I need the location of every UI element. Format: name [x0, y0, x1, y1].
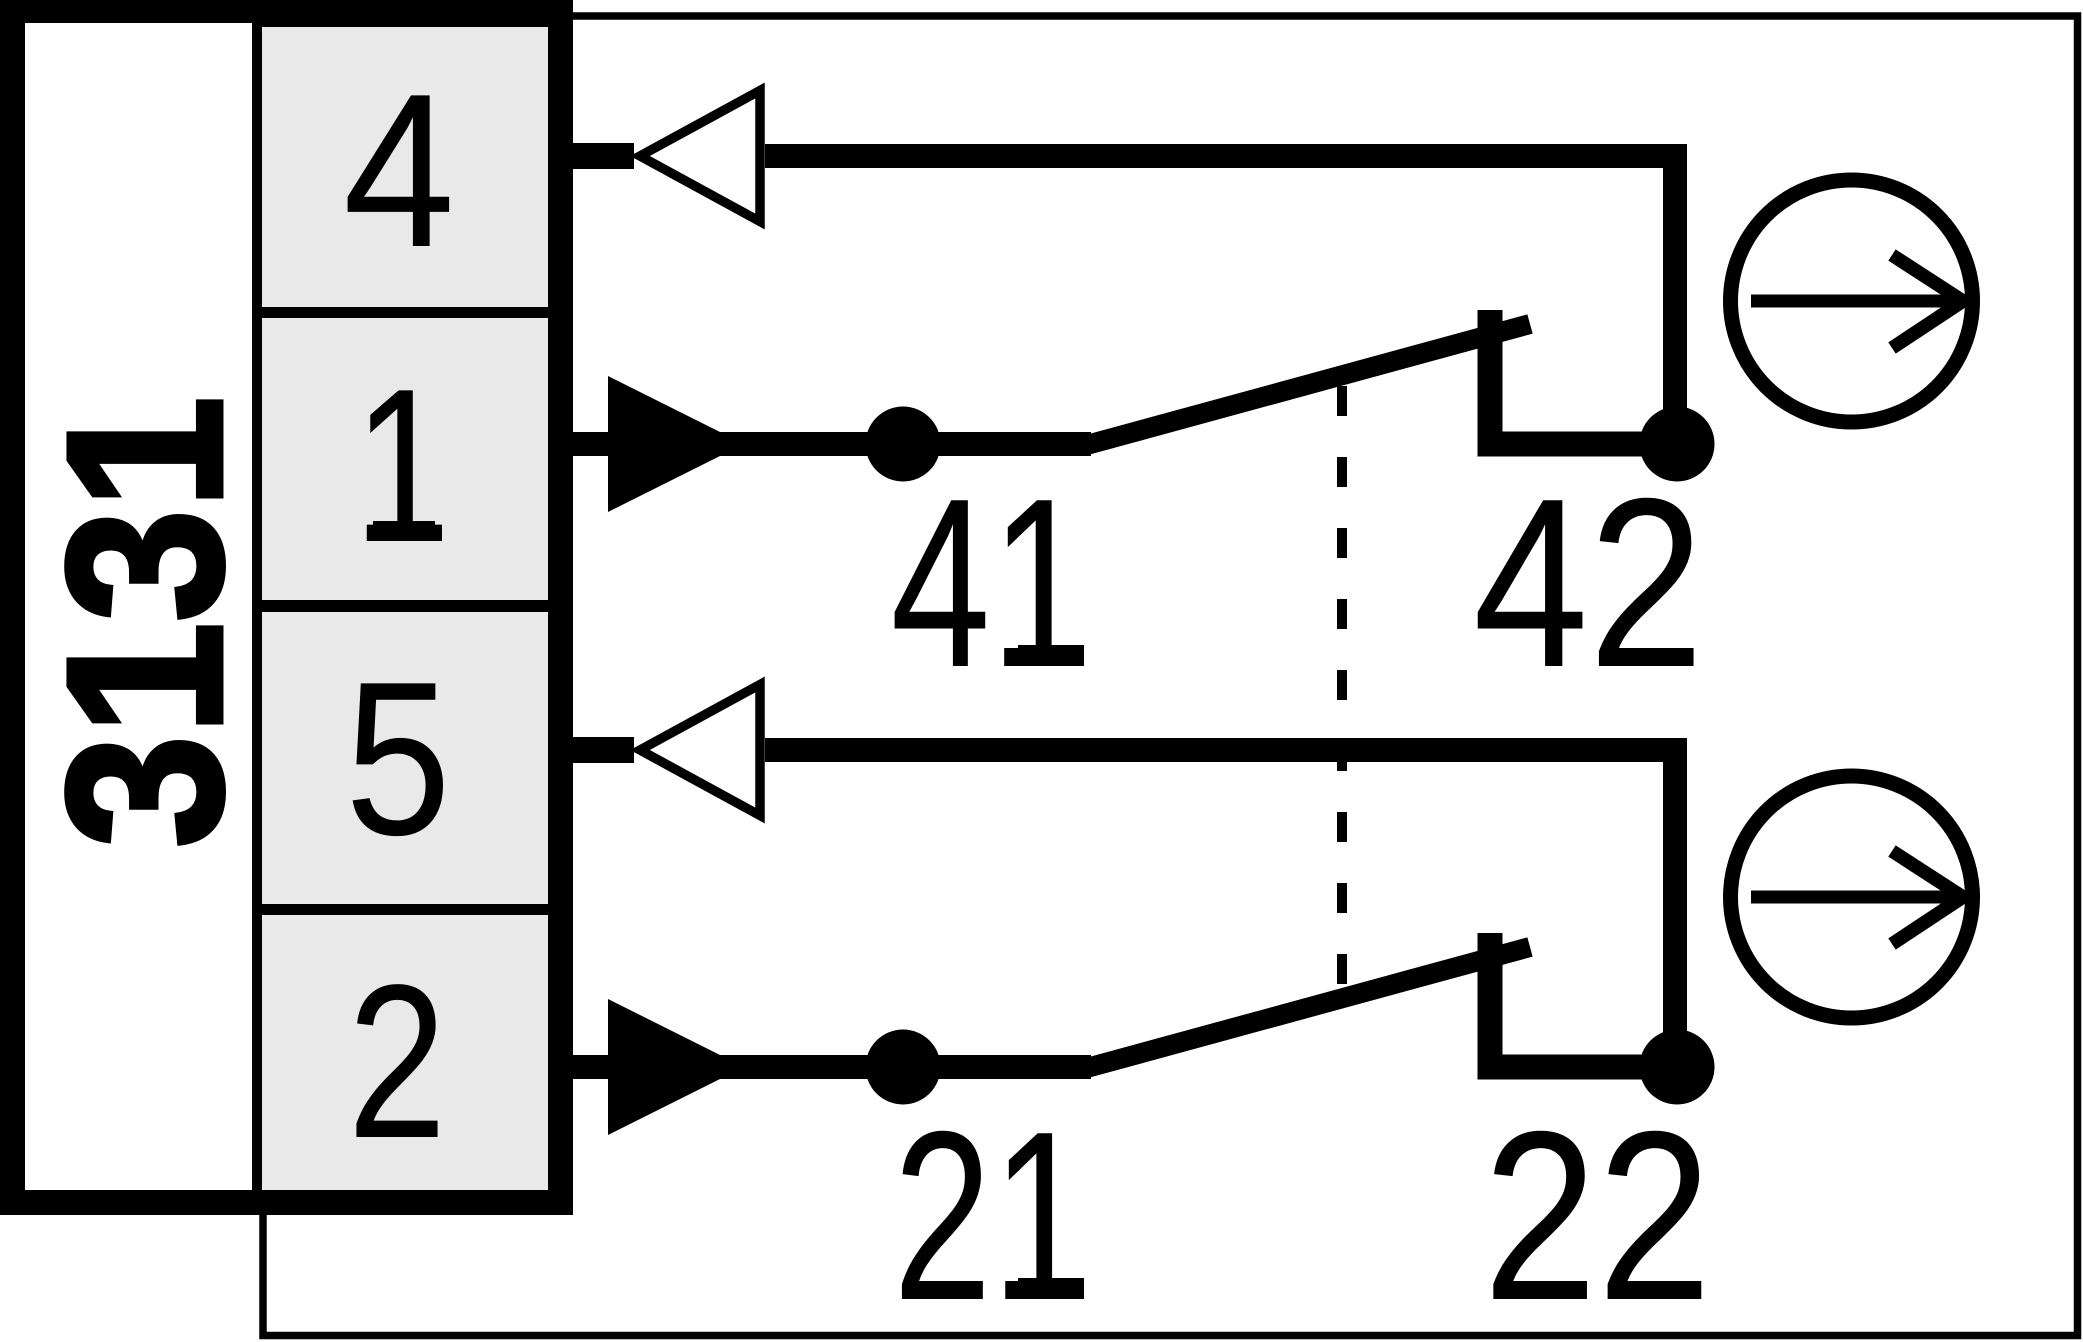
arrow out pin4 (open) — [640, 91, 760, 222]
actuator symbol top circle — [1731, 180, 1973, 422]
contact lever 21-22 — [1083, 947, 1530, 1069]
wire 42 to pin4 — [765, 156, 1675, 430]
svg-text:1: 1 — [354, 344, 451, 588]
mechanical link (dashed) — [1337, 386, 1347, 1013]
actuator symbol top arrow — [1751, 255, 1963, 348]
svg-text:4: 4 — [343, 49, 455, 293]
pin 1 label — [354, 344, 451, 588]
label 41 — [891, 449, 1091, 718]
wire pin5 stub — [573, 737, 634, 763]
divider pins 5/2 — [262, 904, 548, 915]
fixed contact 42 hook — [1490, 310, 1660, 444]
arrow in pin1 (solid) — [608, 376, 744, 512]
actuator symbol bottom arrow — [1751, 851, 1963, 944]
svg-text:41: 41 — [891, 449, 1091, 718]
terminal block label box — [25, 23, 252, 1190]
foot of second 1 in 3131 — [197, 403, 222, 487]
actuator symbol bottom circle — [1731, 776, 1973, 1018]
svg-text:21: 21 — [893, 1082, 1091, 1342]
svg-text:5: 5 — [345, 637, 451, 881]
fixed contact 22 hook — [1490, 933, 1660, 1067]
wire pin1 to 41 — [573, 432, 1091, 456]
node 42 — [1640, 407, 1715, 482]
svg-text:42: 42 — [1473, 449, 1704, 718]
svg-text:3131: 3131 — [21, 396, 268, 848]
arrow in pin2 (solid) — [608, 999, 744, 1135]
label 21 — [893, 1082, 1091, 1342]
wire pin4 stub — [573, 143, 634, 169]
label 3131 — [21, 396, 268, 848]
terminal strip body — [262, 27, 548, 1190]
foot of first 1 in 3131 — [197, 633, 222, 717]
arrow out pin5 (open) — [640, 685, 760, 816]
svg-text:2: 2 — [348, 940, 447, 1184]
terminal block outer border — [0, 0, 573, 1215]
node 41 — [866, 407, 941, 482]
wire pin2 to 21 — [573, 1055, 1091, 1079]
svg-text:22: 22 — [1483, 1082, 1712, 1342]
node 21 — [866, 1030, 941, 1105]
node 22 — [1640, 1030, 1715, 1105]
wire 22 to pin5 — [765, 750, 1675, 1053]
contact lever 41-42 — [1083, 324, 1530, 446]
divider pins 4/1 — [262, 307, 548, 318]
divider pins 1/5 — [262, 600, 548, 612]
